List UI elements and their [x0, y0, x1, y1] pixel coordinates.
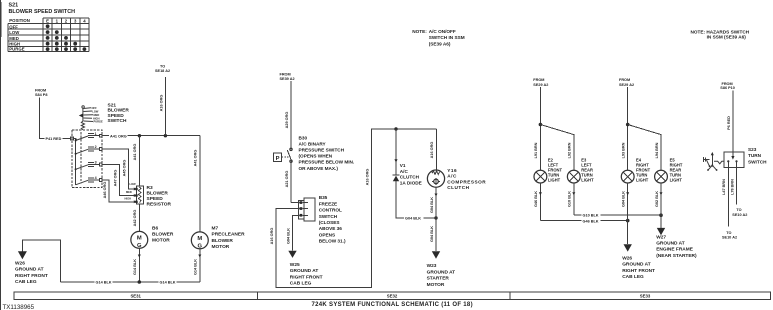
svg-text:P6 RED: P6 RED	[727, 116, 731, 130]
svg-text:CONTROL: CONTROL	[319, 208, 342, 213]
svg-text:SWITCH: SWITCH	[748, 159, 767, 164]
svg-text:FREEZE: FREEZE	[319, 201, 338, 206]
svg-text:L94 BRN: L94 BRN	[655, 142, 659, 158]
svg-text:A/C: A/C	[447, 174, 457, 179]
svg-text:ENGINE FRAME: ENGINE FRAME	[656, 247, 694, 253]
svg-text:HIGH: HIGH	[125, 197, 132, 201]
svg-text:GROUND AT: GROUND AT	[290, 268, 319, 274]
svg-text:MOTOR: MOTOR	[212, 244, 230, 250]
svg-text:FROM: FROM	[619, 78, 630, 82]
svg-text:S21: S21	[9, 2, 19, 8]
svg-text:(SE39 A6): (SE39 A6)	[429, 41, 451, 46]
svg-text:B30: B30	[299, 135, 308, 140]
svg-text:PURGE: PURGE	[9, 47, 24, 52]
svg-text:CAB LEG: CAB LEG	[290, 281, 312, 287]
svg-text:PRESSURE SWITCH: PRESSURE SWITCH	[299, 148, 345, 153]
svg-text:MOTOR: MOTOR	[427, 282, 445, 288]
svg-text:RIGHT FRONT: RIGHT FRONT	[290, 274, 323, 280]
svg-text:OR ABOVE MAX.): OR ABOVE MAX.)	[299, 166, 339, 171]
svg-text:Y16: Y16	[447, 168, 457, 173]
svg-text:BLOWER: BLOWER	[152, 231, 174, 237]
svg-text:GROUND AT: GROUND AT	[427, 269, 456, 275]
svg-text:S21: S21	[108, 103, 117, 109]
svg-text:MED: MED	[126, 190, 132, 194]
svg-text:OPENS: OPENS	[319, 232, 335, 237]
svg-text:SE29 A2: SE29 A2	[619, 83, 634, 87]
svg-text:BLOWER SPEED SWITCH: BLOWER SPEED SWITCH	[9, 9, 76, 15]
svg-text:G46 BLK: G46 BLK	[583, 219, 599, 223]
svg-text:A41 ORG: A41 ORG	[193, 150, 197, 167]
svg-text:S23: S23	[748, 147, 757, 152]
svg-text:S86 P10: S86 P10	[720, 86, 735, 90]
svg-text:G14 BLK: G14 BLK	[96, 281, 112, 285]
svg-text:STARTER: STARTER	[427, 276, 450, 282]
svg-text:R3: R3	[147, 185, 153, 191]
svg-text:MOTOR: MOTOR	[152, 238, 170, 244]
svg-text:G04 BLK: G04 BLK	[430, 197, 434, 213]
svg-text:SE39 A2: SE39 A2	[280, 77, 295, 81]
svg-text:L78 BRN: L78 BRN	[730, 179, 734, 195]
svg-text:BLOWER: BLOWER	[212, 238, 234, 244]
svg-text:A/C: A/C	[400, 169, 409, 174]
svg-text:LIGHT: LIGHT	[581, 178, 594, 183]
svg-text:LIGHT: LIGHT	[670, 178, 683, 183]
svg-text:A/C BINARY: A/C BINARY	[299, 141, 327, 146]
svg-text:TO: TO	[736, 208, 741, 212]
svg-text:CLUTCH: CLUTCH	[400, 175, 420, 180]
svg-text:B35: B35	[319, 195, 328, 200]
svg-text:724K SYSTEM FUNCTIONAL SCHEMAT: 724K SYSTEM FUNCTIONAL SCHEMATIC (11 OF …	[312, 302, 473, 308]
svg-text:SE10 A2: SE10 A2	[732, 213, 747, 217]
svg-text:(NEAR STARTER): (NEAR STARTER)	[656, 253, 697, 259]
svg-text:L47 BRN: L47 BRN	[722, 179, 726, 195]
svg-text:(OPENS WHEN: (OPENS WHEN	[299, 154, 333, 159]
svg-text:BELOW 31.): BELOW 31.)	[319, 239, 346, 244]
svg-text:NOTE:: NOTE:	[412, 29, 427, 34]
svg-text:A29 ORG: A29 ORG	[285, 112, 289, 129]
svg-text:A16 ORG: A16 ORG	[430, 142, 434, 159]
svg-text:G04 BLK: G04 BLK	[405, 217, 421, 221]
svg-text:SWITCH: SWITCH	[319, 214, 338, 219]
svg-text:W25: W25	[290, 262, 300, 268]
svg-text:1A DIODE: 1A DIODE	[400, 180, 422, 185]
svg-text:G: G	[137, 243, 142, 249]
svg-text:FROM: FROM	[35, 88, 46, 92]
svg-text:L92 BRN: L92 BRN	[568, 142, 572, 158]
svg-text:G10 BLK: G10 BLK	[568, 191, 572, 207]
svg-text:G04 BLK: G04 BLK	[622, 191, 626, 207]
svg-text:W26: W26	[622, 255, 632, 261]
svg-text:LOW: LOW	[9, 30, 20, 35]
svg-text:GROUND AT: GROUND AT	[622, 262, 651, 268]
svg-text:LIGHT: LIGHT	[636, 178, 649, 183]
svg-text:SPEED: SPEED	[108, 113, 125, 119]
svg-text:G14 BLK: G14 BLK	[194, 259, 198, 275]
svg-text:LIGHT: LIGHT	[548, 178, 561, 183]
svg-text:P41 RED: P41 RED	[46, 137, 62, 141]
svg-text:FROM: FROM	[533, 78, 544, 82]
svg-text:A/C ON/OFF: A/C ON/OFF	[429, 29, 456, 34]
svg-text:LOW: LOW	[92, 109, 99, 113]
svg-text:CAB LEG: CAB LEG	[622, 274, 644, 280]
svg-text:CLUTCH: CLUTCH	[447, 185, 469, 190]
svg-text:M7: M7	[212, 225, 219, 231]
svg-text:G: G	[198, 243, 203, 249]
svg-text:GROUND AT: GROUND AT	[15, 267, 44, 273]
svg-text:SWITCH IN SSM: SWITCH IN SSM	[429, 35, 465, 40]
svg-text:FROM: FROM	[280, 72, 291, 76]
svg-text:A42 ORG: A42 ORG	[133, 210, 137, 227]
svg-text:A16 ORG: A16 ORG	[270, 228, 274, 245]
svg-text:A16 ORG: A16 ORG	[159, 95, 163, 112]
svg-text:A16 ORG: A16 ORG	[365, 169, 369, 186]
svg-text:G14 BLK: G14 BLK	[160, 281, 176, 285]
svg-text:G04 BLK: G04 BLK	[286, 228, 290, 244]
svg-text:TURN: TURN	[748, 153, 762, 158]
svg-text:G14 BLK: G14 BLK	[133, 259, 137, 275]
svg-text:A46 ORG: A46 ORG	[103, 182, 107, 199]
svg-text:SE18 A2: SE18 A2	[155, 69, 170, 73]
svg-text:BLOWER: BLOWER	[108, 108, 130, 114]
svg-text:GROUND AT: GROUND AT	[656, 241, 685, 247]
svg-text:LOW: LOW	[130, 182, 137, 186]
svg-text:TO: TO	[160, 65, 165, 69]
svg-text:A41 ORG: A41 ORG	[110, 134, 127, 138]
svg-text:V1: V1	[400, 163, 406, 168]
svg-text:L93 BRN: L93 BRN	[622, 142, 626, 158]
svg-text:SPEED: SPEED	[147, 196, 164, 202]
svg-text:SE32: SE32	[387, 294, 398, 299]
svg-text:A41 ORG: A41 ORG	[133, 144, 137, 161]
svg-text:A21 ORG: A21 ORG	[285, 171, 289, 188]
svg-text:S84 P8: S84 P8	[35, 93, 47, 97]
svg-text:RIGHT FRONT: RIGHT FRONT	[622, 268, 655, 274]
svg-text:SE31: SE31	[130, 294, 141, 299]
svg-text:PRECLEANER: PRECLEANER	[212, 232, 246, 238]
svg-text:M: M	[197, 236, 202, 242]
svg-text:SE29 A2: SE29 A2	[533, 83, 548, 87]
svg-text:A47 ORG: A47 ORG	[113, 170, 117, 187]
svg-text:CAB LEG: CAB LEG	[15, 279, 37, 285]
svg-text:PRESSURE BELOW MIN.: PRESSURE BELOW MIN.	[299, 160, 355, 165]
svg-text:W23: W23	[427, 263, 437, 269]
svg-text:G04 BLK: G04 BLK	[430, 226, 434, 242]
svg-text:IN SSM (SE39 A6): IN SSM (SE39 A6)	[707, 35, 747, 40]
svg-text:SWITCH: SWITCH	[108, 118, 127, 124]
svg-text:W27: W27	[656, 234, 666, 240]
svg-text:ABOVE 36: ABOVE 36	[319, 226, 343, 231]
svg-text:POSITION: POSITION	[9, 18, 30, 23]
svg-text:SE10 A2: SE10 A2	[722, 235, 737, 239]
svg-text:M: M	[137, 235, 142, 241]
svg-text:TX1138965: TX1138965	[3, 304, 35, 310]
svg-text:P: P	[276, 156, 280, 162]
svg-text:COMPRESSOR: COMPRESSOR	[447, 179, 486, 184]
svg-text:TO: TO	[726, 231, 731, 235]
svg-text:RIGHT FRONT: RIGHT FRONT	[15, 273, 48, 279]
svg-text:BLOWER: BLOWER	[147, 191, 169, 197]
svg-text:SE33: SE33	[640, 294, 651, 299]
svg-text:OFF: OFF	[9, 24, 18, 29]
svg-text:E: E	[46, 18, 49, 23]
svg-text:RESISTOR: RESISTOR	[147, 202, 172, 208]
svg-text:W26: W26	[15, 261, 25, 267]
svg-text:G10 BLK: G10 BLK	[583, 214, 599, 218]
svg-text:MED: MED	[9, 36, 19, 41]
svg-text:G02 BLK: G02 BLK	[655, 191, 659, 207]
svg-text:G46 BLK: G46 BLK	[534, 191, 538, 207]
svg-text:L91 BRN: L91 BRN	[534, 142, 538, 158]
svg-text:PURGE: PURGE	[94, 120, 103, 124]
svg-text:(CLOSES: (CLOSES	[319, 220, 340, 225]
svg-text:A45 ORG: A45 ORG	[122, 160, 126, 177]
svg-text:B6: B6	[152, 225, 158, 231]
